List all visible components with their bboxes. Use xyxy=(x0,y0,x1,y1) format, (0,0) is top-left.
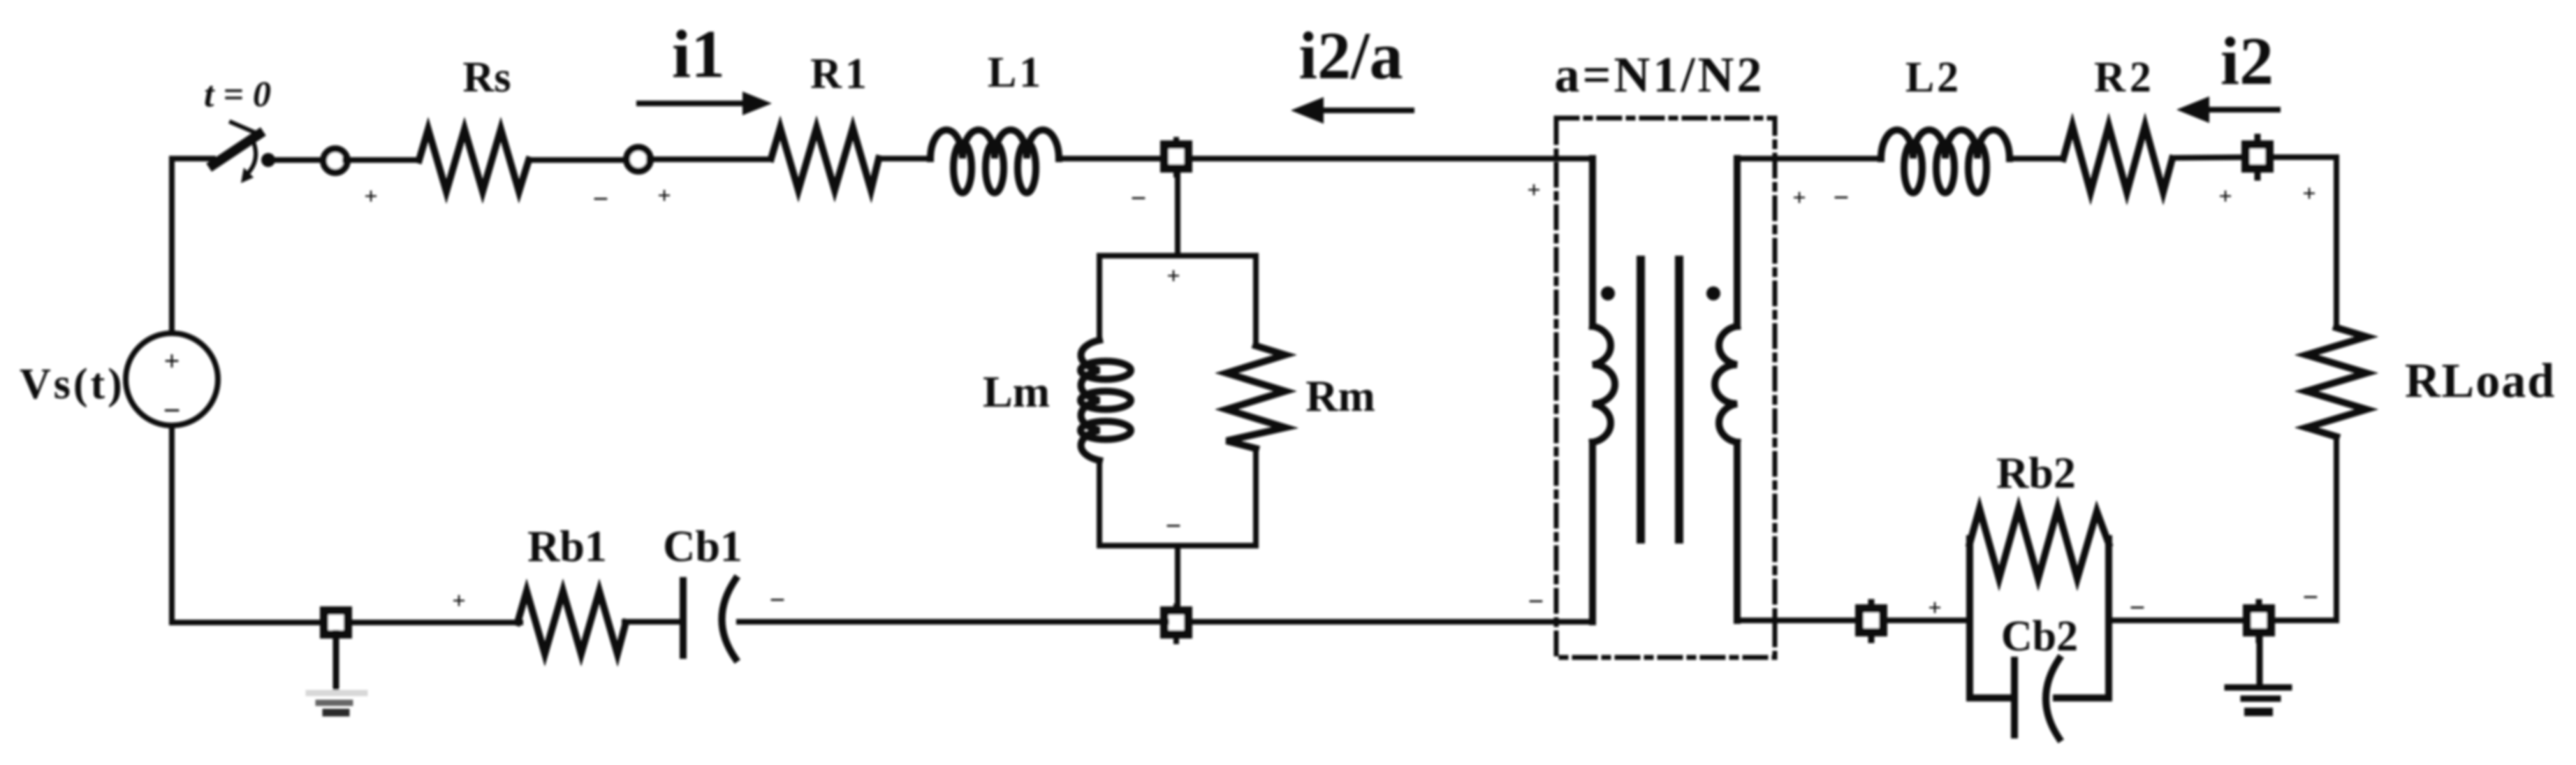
wire transformer to node G xyxy=(1737,618,1859,623)
primary dot xyxy=(1601,286,1615,300)
wire R1 to L1 xyxy=(879,156,930,161)
switch contact dot xyxy=(261,153,275,167)
svg-text:Rb1: Rb1 xyxy=(527,521,607,571)
wire RLoad to bottom corner xyxy=(2269,437,2336,620)
svg-text:t = 0: t = 0 xyxy=(204,75,271,115)
bottom bus left xyxy=(346,620,520,625)
svg-text:R1: R1 xyxy=(810,50,870,98)
wire L1 to node C xyxy=(1059,156,1165,161)
capacitor Cb1 xyxy=(683,579,736,659)
node terminal circle B xyxy=(627,147,650,171)
wire node E to corner xyxy=(2269,157,2336,328)
current arrow i2/a xyxy=(1291,97,1412,124)
Rb2 Cb2 parallel box bars xyxy=(1970,539,2109,698)
node square D xyxy=(1173,606,1179,641)
svg-text:RLoad: RLoad xyxy=(2405,354,2556,408)
svg-text:+: + xyxy=(452,588,465,614)
resistor Rb1 xyxy=(518,591,626,654)
svg-text:−: − xyxy=(1528,585,1544,617)
inductor L1 xyxy=(930,130,1059,193)
switch t=0 xyxy=(213,122,259,183)
svg-text:+: + xyxy=(1166,263,1180,289)
svg-text:+: + xyxy=(1928,595,1941,621)
svg-text:i2: i2 xyxy=(2220,24,2274,99)
voltage source Vs(t) xyxy=(126,333,218,425)
inductor Lm xyxy=(1081,340,1131,460)
wire node to Rs xyxy=(345,157,419,163)
transformer primary winding xyxy=(1593,159,1615,622)
transformer core bars xyxy=(1641,260,1679,539)
bus node D to transformer xyxy=(1187,619,1593,625)
svg-text:−: − xyxy=(2130,592,2146,623)
svg-text:Rm: Rm xyxy=(1305,371,1375,421)
wire node F to Rb2 box xyxy=(2109,618,2247,623)
inductor L2 xyxy=(1881,130,2010,193)
svg-text:−: − xyxy=(1131,182,1147,214)
ground symbol left xyxy=(309,633,365,713)
current arrow i2 xyxy=(2176,96,2278,123)
svg-text:+: + xyxy=(364,184,377,210)
wire source bottom to bus corner xyxy=(172,425,327,622)
svg-text:Lm: Lm xyxy=(983,367,1050,416)
wire Rb2 box to node G xyxy=(1882,618,1970,623)
svg-text:i1: i1 xyxy=(672,17,725,92)
svg-text:+: + xyxy=(657,183,671,209)
resistor Rs xyxy=(419,129,529,191)
current arrow i1 xyxy=(639,92,772,115)
svg-text:L1: L1 xyxy=(988,49,1044,96)
wire Rb1 to Cb1 xyxy=(624,619,681,625)
resistor R2 xyxy=(2063,126,2172,192)
wire L2 to R2 xyxy=(2010,156,2063,161)
svg-text:L2: L2 xyxy=(1905,54,1961,101)
ground symbol right xyxy=(2227,633,2289,712)
bus Cb1 to node D xyxy=(739,619,1166,625)
wire R2 to node E xyxy=(2172,157,2247,158)
svg-text:−: − xyxy=(163,393,180,428)
svg-text:Rs: Rs xyxy=(463,54,511,101)
svg-text:i2/a: i2/a xyxy=(1298,18,1403,93)
svg-text:+: + xyxy=(164,345,180,377)
svg-text:+: + xyxy=(2218,184,2232,210)
svg-text:+: + xyxy=(2302,181,2315,207)
node square C xyxy=(1173,140,1179,175)
svg-text:Cb2: Cb2 xyxy=(2001,613,2078,660)
svg-text:Cb1: Cb1 xyxy=(663,521,742,571)
resistor R1 xyxy=(771,128,879,190)
wire box to bus node D xyxy=(1175,546,1180,613)
wire node B to R1 xyxy=(649,156,771,162)
wire node C to transformer xyxy=(1187,156,1593,161)
wire source top to switch corner xyxy=(172,159,213,333)
node terminal square G xyxy=(1868,602,1875,640)
svg-text:−: − xyxy=(1166,510,1182,541)
resistor Rb2 xyxy=(1970,509,2109,578)
magnetizing box bottom xyxy=(1099,449,1256,546)
wire secondary top to L2 xyxy=(1737,156,1881,161)
svg-text:−: − xyxy=(593,183,609,214)
svg-text:−: − xyxy=(2303,581,2319,613)
wire Rs to node B xyxy=(529,157,628,163)
node terminal square E xyxy=(2255,137,2261,177)
svg-text:Vs(t): Vs(t) xyxy=(20,360,125,408)
node terminal square F xyxy=(2256,602,2262,640)
resistor RLoad xyxy=(2306,328,2366,437)
transformer secondary winding xyxy=(1715,159,1737,620)
svg-text:Rb2: Rb2 xyxy=(1996,448,2076,497)
resistor Rm xyxy=(1227,346,1285,449)
node square ground junction xyxy=(324,611,348,634)
svg-text:R2: R2 xyxy=(2094,54,2156,101)
svg-text:a=N1/N2: a=N1/N2 xyxy=(1554,47,1764,103)
magnetizing branch box top xyxy=(1099,256,1256,346)
svg-text:+: + xyxy=(1792,185,1806,211)
svg-text:−: − xyxy=(770,584,786,615)
svg-text:−: − xyxy=(1834,182,1850,213)
secondary dot xyxy=(1706,286,1720,300)
wire node C down to magnetizing box xyxy=(1175,167,1180,256)
capacitor Cb2 xyxy=(1970,659,2109,738)
transformer dashed box xyxy=(1556,118,1775,657)
node terminal circle A xyxy=(323,149,347,173)
svg-text:+: + xyxy=(1527,177,1540,203)
wire switch to node xyxy=(275,157,323,163)
